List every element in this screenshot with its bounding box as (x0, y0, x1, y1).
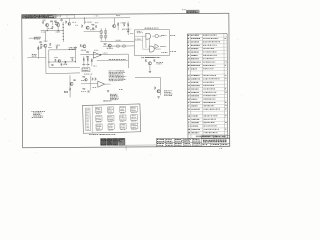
output network R9 C4 (121, 21, 134, 35)
spare gates pin table (83, 104, 141, 133)
next assembly note (181, 139, 190, 141)
revision history table (22, 14, 56, 18)
transistor Q6 driver (104, 43, 113, 49)
document number stamp (182, 9, 199, 14)
general notes paragraph (32, 111, 45, 118)
feedback network R16-R20 (48, 45, 80, 68)
transistor Q5 (112, 22, 118, 30)
transistor Q11 bias stage (55, 18, 78, 26)
wire (100, 40, 134, 42)
main schematic (62, 15, 131, 24)
transistor Q10 stage (154, 87, 172, 99)
resistors R7 R8 divider (100, 28, 107, 41)
transistor Q4 stage (81, 17, 100, 31)
wire (103, 45, 135, 47)
approval stamp strip (101, 138, 157, 151)
drawing sheet border frame (22, 13, 230, 147)
title block (156, 135, 229, 146)
revision table empty cells (56, 15, 75, 18)
transistors Q1 Q2 input pair (41, 20, 64, 33)
resistor R15 and label (27, 46, 46, 59)
capacitor C1 and transistor Q3 (37, 31, 52, 74)
op-amp U1 (80, 50, 128, 69)
input terminal J1 (29, 37, 41, 40)
op-amp U2 output stage (81, 76, 111, 92)
functional diagram caption (141, 56, 160, 59)
spare gates table caption (89, 100, 116, 135)
resistor pack R21-R24 (82, 56, 97, 74)
wire (135, 77, 161, 95)
parts list table (187, 34, 228, 139)
notes list (109, 70, 127, 81)
net labels (107, 89, 123, 100)
transistor Q7 (80, 44, 86, 50)
transistor Q8 bias branch (64, 75, 76, 97)
scanner specks (4, 2, 243, 157)
wire (46, 72, 80, 75)
transistor Q9 stage (145, 57, 163, 73)
functional diagram output labels (170, 35, 176, 52)
functional diagram U3 gates (134, 28, 169, 56)
node bus with junctions (63, 22, 64, 42)
sheet number note (219, 147, 223, 150)
